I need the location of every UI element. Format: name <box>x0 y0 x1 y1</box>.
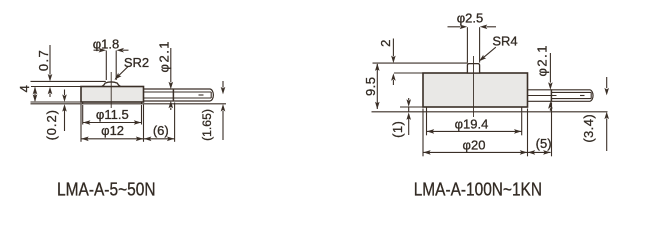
cable (right drawing, outer jacket with rounded end) <box>528 90 594 102</box>
dimension text φ2.1 (right) <box>534 44 549 77</box>
svg-text:LMA-A-5~50N: LMA-A-5~50N <box>57 178 156 199</box>
svg-text:SR4: SR4 <box>492 34 517 49</box>
label LMA-A-5~50N <box>57 178 156 199</box>
svg-text:φ2.1: φ2.1 <box>156 40 171 73</box>
svg-text:2: 2 <box>378 40 393 47</box>
dimension text SR2 <box>124 55 149 70</box>
dimension 9.5 line and arrows <box>375 63 380 109</box>
dimension text φ20 <box>463 137 486 152</box>
dimension text (5) <box>536 136 552 151</box>
load cell body (left, φ12 x 4) <box>81 87 144 103</box>
bottom boss sides (right, φ19.4 bearing face) <box>427 107 522 112</box>
dimension text (1) <box>390 121 405 138</box>
dimension text φ2.5 <box>457 11 484 26</box>
dimension φ2.1 line and arrows (right cable) <box>548 53 553 111</box>
dimension text (0.2) <box>44 109 59 140</box>
centerline (left body) <box>110 72 112 108</box>
svg-text:φ11.5: φ11.5 <box>96 107 129 122</box>
dimension text 9.5 <box>363 77 378 96</box>
svg-text:φ12: φ12 <box>101 123 124 138</box>
dimension (5) extension line (boot end, right) <box>551 102 553 156</box>
dimension φ20 line and arrows <box>423 150 527 155</box>
svg-text:φ2.5: φ2.5 <box>457 11 484 26</box>
svg-text:LMA-A-100N~1KN: LMA-A-100N~1KN <box>414 178 542 199</box>
dimension text φ12 <box>101 123 124 138</box>
svg-text:φ19.4: φ19.4 <box>455 117 489 132</box>
bottom boss sides (left, φ11.5 bearing face) <box>83 102 142 104</box>
dimension 0.7 line and arrows <box>48 45 53 97</box>
body top extension line (left) <box>31 86 81 88</box>
svg-text:(1.65): (1.65) <box>200 109 214 141</box>
cable inner conductor lines (right) <box>552 92 592 98</box>
leader SR4 with arrow <box>479 47 496 61</box>
dimension (1) line and arrows <box>406 98 411 135</box>
dimension text (6) <box>153 123 169 138</box>
svg-text:SR2: SR2 <box>124 55 149 70</box>
cable (left drawing, outer jacket with rounded end) <box>144 89 214 101</box>
dimension (1.65) line and arrows <box>221 81 226 140</box>
svg-text:0.7: 0.7 <box>36 49 51 71</box>
svg-text:(6): (6) <box>153 123 169 138</box>
svg-text:φ20: φ20 <box>463 137 486 152</box>
dimension φ2.5 arrows and line <box>448 25 497 30</box>
load button SR4 (right) <box>467 64 479 73</box>
dimension text (1.65) <box>200 109 214 141</box>
leader SR2 with arrow <box>115 67 128 80</box>
dimension φ12 line and arrows <box>81 137 143 142</box>
dimension φ1.8 arrows and line <box>94 48 129 53</box>
svg-text:9.5: 9.5 <box>363 77 378 96</box>
button top extension line (right) <box>373 62 468 64</box>
svg-text:φ2.1: φ2.1 <box>534 44 549 77</box>
load button SR2 (left) <box>102 82 121 86</box>
dimension φ2.5 extension lines <box>467 27 479 62</box>
dimension (6) line and arrows <box>144 137 175 142</box>
svg-text:(3.4): (3.4) <box>581 114 596 143</box>
dimension text SR4 <box>492 34 517 49</box>
centerline (right body) <box>473 56 475 117</box>
dimension 4 arrows <box>33 87 38 102</box>
dimension text (3.4) <box>581 114 596 143</box>
cable inner conductor lines (left) <box>144 92 212 98</box>
dimension φ12 extension lines <box>81 104 144 141</box>
cable centerline dash (left) <box>199 94 204 96</box>
dimension φ19.4 line and arrows <box>427 129 522 134</box>
mounting surface line (left) <box>31 103 227 105</box>
dimension text φ2.1 (left) <box>156 40 171 73</box>
dimension (3.4) line and arrows <box>604 77 609 151</box>
dimension text φ19.4 <box>455 117 489 132</box>
dimension (5) line and arrows <box>528 150 551 155</box>
dimension (0.2) line and arrows <box>62 90 67 132</box>
dimension φ11.5 extension lines <box>83 105 142 125</box>
dimension φ20 extension lines <box>423 109 528 157</box>
dimension φ11.5 line and arrows <box>83 120 141 125</box>
label LMA-A-100N~1KN <box>414 178 542 199</box>
dimension 2 line and arrows <box>391 39 396 86</box>
cable boot end line (left) <box>172 89 174 102</box>
svg-text:(0.2): (0.2) <box>44 109 59 140</box>
dimension text 0.7 <box>36 49 51 71</box>
cable boot end line (right) <box>550 89 552 101</box>
dimension text 2 <box>378 40 393 47</box>
button top extension line (left) <box>31 80 106 82</box>
dimension text 4 <box>17 85 32 92</box>
mounting surface line (right) <box>372 111 608 113</box>
body bottom extension line (right) <box>400 106 423 108</box>
dimension φ1.8 extension lines <box>106 51 116 81</box>
svg-text:φ1.8: φ1.8 <box>93 36 120 51</box>
svg-text:4: 4 <box>17 85 32 92</box>
cable centerline (right) <box>521 95 585 97</box>
svg-text:(5): (5) <box>536 136 552 151</box>
body bottom extension line (left) <box>31 101 82 103</box>
dimension text φ1.8 <box>93 36 120 51</box>
svg-text:(1): (1) <box>390 121 405 138</box>
body top extension line (right) <box>394 72 423 74</box>
dimension φ19.4 extension lines <box>427 112 522 135</box>
load cell body (right, φ20 x 9.5) <box>423 73 528 107</box>
dimension text φ11.5 <box>96 107 129 122</box>
dimension φ2.1 line and arrows (left cable) <box>169 48 174 110</box>
dimension (6) extension line (boot end) <box>174 103 176 142</box>
